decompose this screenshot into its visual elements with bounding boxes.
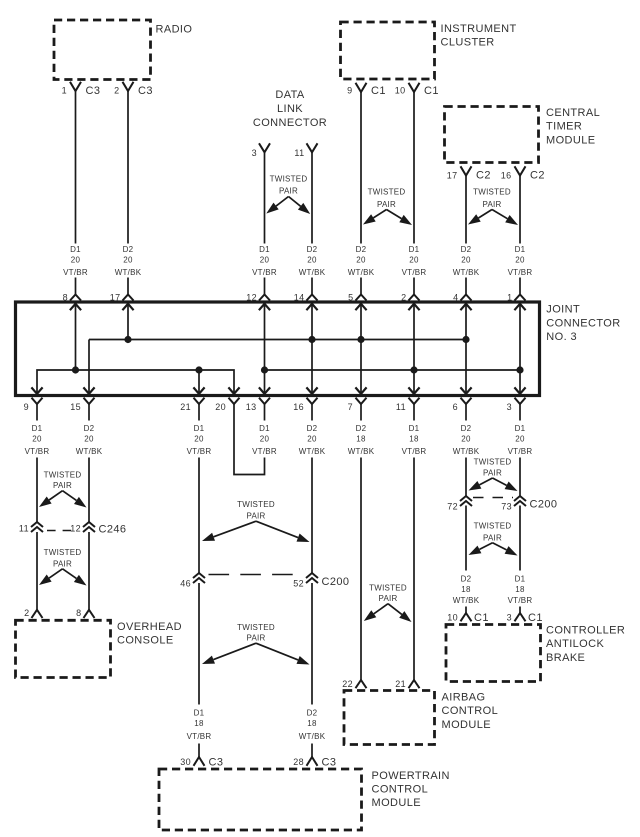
twisted pair label with arrows (overhead console wires, below C246) <box>39 548 87 586</box>
junction: pin 8 on D1 left bus <box>72 366 79 373</box>
pin 16 C2 of CENTRAL TIMER MODULE <box>501 166 545 181</box>
svg-text:C2: C2 <box>476 170 491 182</box>
svg-text:D2: D2 <box>461 245 472 254</box>
wire label D2 20 WT/BK (DLC pin 11 wire) <box>299 245 326 277</box>
svg-text:10: 10 <box>395 86 406 96</box>
pin 9 (joint connector bottom) <box>24 398 43 412</box>
svg-text:TWISTED: TWISTED <box>44 548 82 557</box>
wire label D1 20 VT/BR (CTM pin 16 wire) <box>508 245 533 277</box>
svg-text:2: 2 <box>401 292 406 302</box>
svg-text:TWISTED: TWISTED <box>474 522 512 531</box>
svg-text:VT/BR: VT/BR <box>25 447 50 456</box>
wire label D2 20 WT/BK (pin 15 wire) <box>76 424 103 456</box>
wire D1: joint connector pin 3 through C200 to controller antilock brake pin 3 <box>519 404 521 613</box>
pin 10 C1 of CONTROLLER ANTILOCK BRAKE <box>447 612 489 624</box>
wire label D2 20 WT/BK (radio pin 2 wire) <box>115 245 142 277</box>
svg-text:11: 11 <box>19 524 29 534</box>
svg-text:D1: D1 <box>32 424 43 433</box>
svg-text:PAIR: PAIR <box>482 200 501 209</box>
svg-text:MODULE: MODULE <box>546 134 595 146</box>
svg-text:PAIR: PAIR <box>279 187 298 196</box>
component DATA LINK CONNECTOR name label <box>253 89 327 129</box>
pin 5 (joint connector top) <box>348 292 366 302</box>
svg-text:VT/BR: VT/BR <box>508 268 533 277</box>
svg-text:TWISTED: TWISTED <box>369 584 407 593</box>
svg-text:D1: D1 <box>409 424 420 433</box>
svg-text:WT/BK: WT/BK <box>299 268 326 277</box>
svg-text:15: 15 <box>70 402 81 412</box>
pin 30 C3 of POWERTRAIN CONTROL MODULE <box>180 757 223 769</box>
junction: pin 2 wire on D1 right bus <box>410 366 417 373</box>
svg-text:9: 9 <box>347 86 352 96</box>
svg-text:VT/BR: VT/BR <box>402 268 427 277</box>
svg-text:46: 46 <box>180 579 191 589</box>
svg-text:TWISTED: TWISTED <box>237 623 275 632</box>
in-line connector C200 pin 52 with C200 label (on pin 16 wire) <box>293 573 349 589</box>
svg-text:D2: D2 <box>84 424 95 433</box>
svg-text:D2: D2 <box>307 424 318 433</box>
pin 2 (joint connector top) <box>401 292 419 302</box>
svg-text:CENTRAL: CENTRAL <box>546 107 600 119</box>
svg-text:21: 21 <box>395 679 406 689</box>
svg-text:1: 1 <box>507 292 512 302</box>
svg-text:D1: D1 <box>515 245 526 254</box>
internal wire: pin 8 down to D1 left bus <box>70 304 81 370</box>
svg-text:ANTILOCK: ANTILOCK <box>546 638 604 650</box>
internal D1 bus (right): pin 12 wire across to pin 1 wire <box>265 369 521 371</box>
svg-text:20: 20 <box>409 256 419 265</box>
svg-text:WT/BK: WT/BK <box>453 268 480 277</box>
svg-text:WT/BK: WT/BK <box>76 447 103 456</box>
wire label D1 20 VT/BR (pin 21 wire) <box>187 424 212 456</box>
internal wire: pin 5 through to pin 7 <box>355 304 366 394</box>
wire D1 20 VT/BR: RADIO pin 1 to joint connector pin 8 <box>75 91 77 295</box>
pin 11 (joint connector bottom) <box>396 398 420 412</box>
svg-text:VT/BR: VT/BR <box>63 268 88 277</box>
svg-text:C200: C200 <box>530 499 558 511</box>
svg-text:12: 12 <box>70 524 81 534</box>
svg-text:30: 30 <box>180 757 191 767</box>
pin 7 (joint connector bottom) <box>348 398 367 412</box>
svg-text:TWISTED: TWISTED <box>237 500 275 509</box>
svg-text:18: 18 <box>515 585 525 594</box>
junction: pin 4 wire on D2 bus <box>462 336 469 343</box>
internal wire: pin 12 through to pin 13 <box>259 304 270 394</box>
svg-text:1: 1 <box>62 86 67 96</box>
svg-text:20: 20 <box>307 435 317 444</box>
svg-text:CLUSTER: CLUSTER <box>441 37 495 49</box>
svg-text:C200: C200 <box>322 576 350 588</box>
svg-text:17: 17 <box>110 292 121 302</box>
wire label D2 20 WT/BK (pin 16 wire) <box>299 424 326 456</box>
svg-text:20: 20 <box>84 435 94 444</box>
wire D2 20 WT/BK: CTM pin 17 to joint connector pin 4 <box>465 176 467 295</box>
svg-text:VT/BR: VT/BR <box>187 732 212 741</box>
svg-text:2: 2 <box>114 86 119 96</box>
svg-text:18: 18 <box>409 435 419 444</box>
pin 9 C1 of INSTRUMENT CLUSTER <box>347 83 386 97</box>
svg-text:10: 10 <box>447 612 458 622</box>
wire D2 20 WT/BK: DLC pin 11 to joint connector pin 14 <box>311 152 313 294</box>
svg-text:PAIR: PAIR <box>246 634 265 643</box>
svg-text:BRAKE: BRAKE <box>546 652 585 664</box>
pin 12 (joint connector top) <box>246 292 270 302</box>
pin 11 of DATA LINK CONNECTOR <box>294 143 317 158</box>
twisted pair label with arrows (PCM wires, below C200) <box>202 623 310 665</box>
svg-text:20: 20 <box>194 435 204 444</box>
svg-text:18: 18 <box>307 719 317 728</box>
svg-text:18: 18 <box>356 435 366 444</box>
wire label D1 18 VT/BR (to antilock brake pin 3) <box>508 575 533 606</box>
wire label D2 20 WT/BK (cluster pin 9 wire) <box>348 245 375 277</box>
twisted pair label with arrows (PCM wires, above C200) <box>202 500 310 542</box>
wire label D1 18 VT/BR (pin 11 wire) <box>402 424 427 456</box>
component OVERHEAD CONSOLE (dashed box) with name label <box>16 620 182 677</box>
pin 2 of OVERHEAD CONSOLE <box>24 608 42 618</box>
svg-text:D1: D1 <box>515 424 526 433</box>
svg-text:TWISTED: TWISTED <box>473 188 511 197</box>
internal wire: D1 left bus down to pin 21 <box>193 370 204 394</box>
svg-text:PAIR: PAIR <box>378 594 397 603</box>
svg-text:D1: D1 <box>70 245 81 254</box>
pin 2 C3 of RADIO <box>114 82 153 97</box>
svg-text:WT/BK: WT/BK <box>299 732 326 741</box>
svg-text:D1: D1 <box>194 709 205 718</box>
svg-text:D2: D2 <box>356 424 367 433</box>
svg-text:VT/BR: VT/BR <box>508 447 533 456</box>
twisted pair label with arrows (instrument cluster wires) <box>363 188 412 226</box>
svg-text:D1: D1 <box>409 245 420 254</box>
svg-text:52: 52 <box>293 579 304 589</box>
wire label D1 18 VT/BR (to PCM pin 30) <box>187 709 212 742</box>
wire D1 20 VT/BR: joint connector pin 13 stub to jumper <box>264 404 266 464</box>
internal wire: pin 1 through to pin 3 <box>514 304 525 394</box>
svg-text:3: 3 <box>507 612 512 622</box>
svg-text:D2: D2 <box>461 424 472 433</box>
internal wire: pin 2 through to pin 11 <box>408 304 419 394</box>
svg-text:D1: D1 <box>259 245 270 254</box>
wire label D1 20 VT/BR (pin 9 wire) <box>25 424 50 456</box>
svg-text:MODULE: MODULE <box>372 797 421 809</box>
svg-text:VT/BR: VT/BR <box>508 596 533 605</box>
svg-text:16: 16 <box>501 170 512 180</box>
svg-text:9: 9 <box>24 402 29 412</box>
svg-text:20: 20 <box>461 256 471 265</box>
svg-text:VT/BR: VT/BR <box>187 447 212 456</box>
svg-text:AIRBAG: AIRBAG <box>442 692 486 704</box>
junction: pin 21 on D1 left bus <box>195 366 202 373</box>
svg-text:C246: C246 <box>99 524 127 536</box>
in-line connector C200 pin 72 (on pin 6 wire) <box>447 496 472 511</box>
svg-text:RADIO: RADIO <box>156 24 193 36</box>
pin 15 (joint connector bottom) <box>70 398 94 412</box>
wire label D2 20 WT/BK (CTM pin 17 wire) <box>453 245 480 277</box>
pin 13 (joint connector bottom) <box>246 398 270 412</box>
svg-text:16: 16 <box>293 402 304 412</box>
wire label D1 20 VT/BR (DLC pin 3 wire) <box>252 245 277 277</box>
svg-text:20: 20 <box>461 435 471 444</box>
wire label D1 20 VT/BR (pin 3 wire) <box>508 424 533 456</box>
in-line connector C246 pin 12 with C246 label (on pin 15 wire) <box>70 522 126 536</box>
pin 8 (joint connector top) <box>63 292 81 302</box>
svg-text:72: 72 <box>447 501 458 511</box>
in-line connector C200 pin 73 with C200 label (on pin 3 wire) <box>501 496 557 511</box>
svg-text:PAIR: PAIR <box>377 200 396 209</box>
pin 21 (joint connector bottom) <box>180 398 204 412</box>
internal D1 bus (left): pin 9 to pin 20 horizontal <box>31 370 239 394</box>
twisted pair label with arrows (overhead console wires, above C246) <box>39 470 87 507</box>
svg-text:20: 20 <box>307 256 317 265</box>
junction: pin 5 wire on D2 bus <box>357 336 364 343</box>
svg-text:WT/BK: WT/BK <box>453 447 480 456</box>
pin 17 (joint connector top) <box>110 292 134 302</box>
svg-text:TWISTED: TWISTED <box>474 458 512 467</box>
svg-text:D2: D2 <box>356 245 367 254</box>
svg-text:20: 20 <box>515 256 525 265</box>
svg-text:C1: C1 <box>528 612 543 624</box>
svg-text:PAIR: PAIR <box>246 512 265 521</box>
svg-text:C3: C3 <box>138 85 153 97</box>
svg-text:20: 20 <box>515 435 525 444</box>
svg-text:11: 11 <box>396 402 406 412</box>
svg-text:CONNECTOR: CONNECTOR <box>546 317 620 329</box>
component CENTRAL TIMER MODULE (dashed box) with name label <box>445 107 601 163</box>
wire D2 18 WT/BK: joint connector pin 7 to airbag control module pin 22 <box>360 404 362 681</box>
svg-text:PAIR: PAIR <box>483 533 502 542</box>
twisted pair label with arrows (airbag control module wires) <box>364 584 412 623</box>
wire label D1 20 VT/BR (cluster pin 10 wire) <box>402 245 427 277</box>
svg-text:VT/BR: VT/BR <box>252 268 277 277</box>
pin 3 of DATA LINK CONNECTOR <box>252 143 270 158</box>
wire label D2 18 WT/BK (to PCM pin 28) <box>299 709 326 742</box>
junction: pin 14 wire on D2 bus <box>308 336 315 343</box>
svg-text:3: 3 <box>252 148 257 158</box>
wire D1: joint connector pin 21 through C200 to PCM pin 30 <box>198 404 200 757</box>
svg-text:MODULE: MODULE <box>442 719 491 731</box>
svg-text:VT/BR: VT/BR <box>402 447 427 456</box>
wire D2 20 WT/BK: RADIO pin 2 to joint connector pin 17 <box>127 91 129 295</box>
pin 1 C3 of RADIO <box>62 82 101 97</box>
svg-text:D1: D1 <box>515 575 526 584</box>
svg-text:18: 18 <box>194 719 204 728</box>
junction: pin 1 wire on D1 right bus <box>516 366 523 373</box>
svg-text:20: 20 <box>32 435 42 444</box>
svg-text:WT/BK: WT/BK <box>453 596 480 605</box>
wire D1 20 VT/BR: cluster pin 10 to joint connector pin 2 <box>413 92 415 295</box>
pin 1 (joint connector top) <box>507 292 525 302</box>
svg-text:C3: C3 <box>322 757 337 769</box>
svg-text:C1: C1 <box>474 612 489 624</box>
junction: pin 17 on D2 bus <box>124 336 131 343</box>
svg-text:WT/BK: WT/BK <box>348 447 375 456</box>
wire D2: joint connector pin 16 through C200 to PCM pin 28 <box>311 404 313 757</box>
svg-text:D1: D1 <box>194 424 205 433</box>
svg-text:LINK: LINK <box>277 103 303 115</box>
component AIRBAG CONTROL MODULE (dashed box) with name label <box>344 691 498 745</box>
wire D2: joint connector pin 6 through C200 to controller antilock brake pin 10 <box>465 404 467 613</box>
pin 6 (joint connector bottom) <box>453 398 472 412</box>
svg-text:20: 20 <box>123 256 133 265</box>
wire label D2 18 WT/BK (to antilock brake pin 10) <box>453 575 480 606</box>
svg-text:PAIR: PAIR <box>53 559 72 568</box>
svg-text:14: 14 <box>294 292 305 302</box>
in-line connector C200 pin 46 (on pin 21 wire) <box>180 573 205 589</box>
joint connector no. 3 (solid box) with name label <box>16 302 621 396</box>
svg-text:D2: D2 <box>461 575 472 584</box>
wire label D2 18 WT/BK (pin 7 wire) <box>348 424 375 456</box>
pin 4 (joint connector top) <box>453 292 471 302</box>
svg-text:8: 8 <box>76 608 81 618</box>
connector C246 mating line (dashed) <box>47 530 73 532</box>
svg-text:4: 4 <box>453 292 458 302</box>
wire D1 20 VT/BR: joint connector pin 9 to overhead console pin 2 <box>36 404 38 610</box>
svg-text:20: 20 <box>260 256 270 265</box>
svg-text:12: 12 <box>246 292 257 302</box>
svg-text:NO. 3: NO. 3 <box>546 331 577 343</box>
wire label D1 20 VT/BR (radio pin 1 wire) <box>63 245 88 277</box>
svg-text:20: 20 <box>260 435 270 444</box>
pin 22 of AIRBAG CONTROL MODULE <box>342 679 366 689</box>
svg-text:D2: D2 <box>307 245 318 254</box>
svg-text:20: 20 <box>356 256 366 265</box>
svg-text:D2: D2 <box>123 245 134 254</box>
pin 14 (joint connector top) <box>294 292 318 302</box>
svg-text:C3: C3 <box>86 85 101 97</box>
twisted pair label with arrows (antilock brake wires, above C200) <box>469 458 518 492</box>
pin 21 of AIRBAG CONTROL MODULE <box>395 679 419 689</box>
pin 10 C1 of INSTRUMENT CLUSTER <box>395 83 439 97</box>
pin 28 C3 of POWERTRAIN CONTROL MODULE <box>293 757 336 769</box>
svg-text:WT/BK: WT/BK <box>348 268 375 277</box>
twisted pair label with arrows (DLC wires) <box>266 175 310 215</box>
wire D2 20 WT/BK: cluster pin 9 to joint connector pin 5 <box>360 92 362 295</box>
wire label D2 20 WT/BK (pin 6 wire) <box>453 424 480 456</box>
svg-text:20: 20 <box>215 402 226 412</box>
pin 3 C1 of CONTROLLER ANTILOCK BRAKE <box>507 612 543 624</box>
svg-text:CONNECTOR: CONNECTOR <box>253 117 327 129</box>
twisted pair label with arrows (central timer module wires) <box>468 188 518 226</box>
svg-text:WT/BK: WT/BK <box>299 447 326 456</box>
svg-text:D2: D2 <box>307 709 318 718</box>
svg-text:TWISTED: TWISTED <box>44 470 82 479</box>
twisted pair label with arrows (antilock brake wires, below C200) <box>469 522 518 556</box>
svg-text:22: 22 <box>342 679 353 689</box>
wire D1 18 VT/BR: joint connector pin 11 to airbag control module pin 21 <box>413 404 415 681</box>
internal wire: pin 17 down to D2 bus <box>122 304 133 340</box>
svg-text:C2: C2 <box>530 170 545 182</box>
svg-text:OVERHEAD: OVERHEAD <box>117 621 182 633</box>
svg-text:VT/BR: VT/BR <box>252 447 277 456</box>
svg-text:18: 18 <box>461 585 471 594</box>
svg-text:D1: D1 <box>259 424 270 433</box>
svg-text:73: 73 <box>501 501 512 511</box>
svg-text:C3: C3 <box>209 757 224 769</box>
svg-text:POWERTRAIN: POWERTRAIN <box>372 770 450 782</box>
pin 3 (joint connector bottom) <box>507 398 526 412</box>
internal wire: pin 4 through to pin 6 <box>460 304 471 394</box>
connector C200 mating line (dashed, right) <box>473 497 513 499</box>
svg-text:CONTROL: CONTROL <box>442 705 499 717</box>
pin 17 C2 of CENTRAL TIMER MODULE <box>447 166 491 181</box>
wire label D1 20 VT/BR (pin 13 wire) <box>252 424 277 456</box>
svg-text:CONTROLLER: CONTROLLER <box>546 625 625 637</box>
pin 8 of OVERHEAD CONSOLE <box>76 608 94 618</box>
svg-text:WT/BK: WT/BK <box>115 268 142 277</box>
svg-text:TWISTED: TWISTED <box>270 175 308 184</box>
svg-text:JOINT: JOINT <box>546 304 580 316</box>
component INSTRUMENT CLUSTER (dashed box) with name label <box>341 22 517 79</box>
svg-text:20: 20 <box>71 256 81 265</box>
svg-text:13: 13 <box>246 402 257 412</box>
svg-text:11: 11 <box>294 148 304 158</box>
component RADIO (dashed box) with name label <box>54 20 192 80</box>
svg-text:8: 8 <box>63 292 68 302</box>
svg-text:INSTRUMENT: INSTRUMENT <box>441 23 517 35</box>
svg-text:C1: C1 <box>371 85 386 97</box>
pin 16 (joint connector bottom) <box>293 398 317 412</box>
wire D1 20 VT/BR: DLC pin 3 to joint connector pin 12 <box>264 152 266 294</box>
svg-text:5: 5 <box>348 292 353 302</box>
pin 20 (joint connector bottom) <box>215 398 239 412</box>
wire D1 20 VT/BR: CTM pin 16 to joint connector pin 1 <box>519 176 521 295</box>
svg-text:DATA: DATA <box>275 89 305 101</box>
svg-text:PAIR: PAIR <box>53 481 72 490</box>
internal D2 bus: pin 15 up and across to pin 4 wire <box>83 340 466 394</box>
svg-text:CONTROL: CONTROL <box>372 784 429 796</box>
svg-text:C1: C1 <box>424 85 439 97</box>
in-line connector C246 pin 11 (on pin 9 wire) <box>19 522 43 534</box>
component CONTROLLER ANTILOCK BRAKE (dashed box) with name label <box>446 625 625 682</box>
svg-text:7: 7 <box>348 402 353 412</box>
svg-text:3: 3 <box>507 402 512 412</box>
wire D2 20 WT/BK: joint connector pin 15 to overhead console pin 8 <box>88 404 90 610</box>
component POWERTRAIN CONTROL MODULE (dashed box) with name label <box>159 769 450 830</box>
junction: pin 12 wire on D1 right bus <box>261 366 268 373</box>
svg-text:2: 2 <box>24 608 29 618</box>
svg-text:28: 28 <box>293 757 304 767</box>
svg-text:17: 17 <box>447 170 458 180</box>
svg-text:CONSOLE: CONSOLE <box>117 635 174 647</box>
svg-text:PAIR: PAIR <box>483 469 502 478</box>
internal wire: pin 14 through to pin 16 <box>306 304 317 394</box>
svg-text:6: 6 <box>453 402 458 412</box>
wire jumper: joint connector pin 20 looped to pin 13 wire <box>234 404 265 475</box>
connector C200 mating line (dashed, middle) <box>209 574 303 576</box>
svg-text:TIMER: TIMER <box>546 121 582 133</box>
svg-text:TWISTED: TWISTED <box>368 188 406 197</box>
svg-text:21: 21 <box>180 402 191 412</box>
